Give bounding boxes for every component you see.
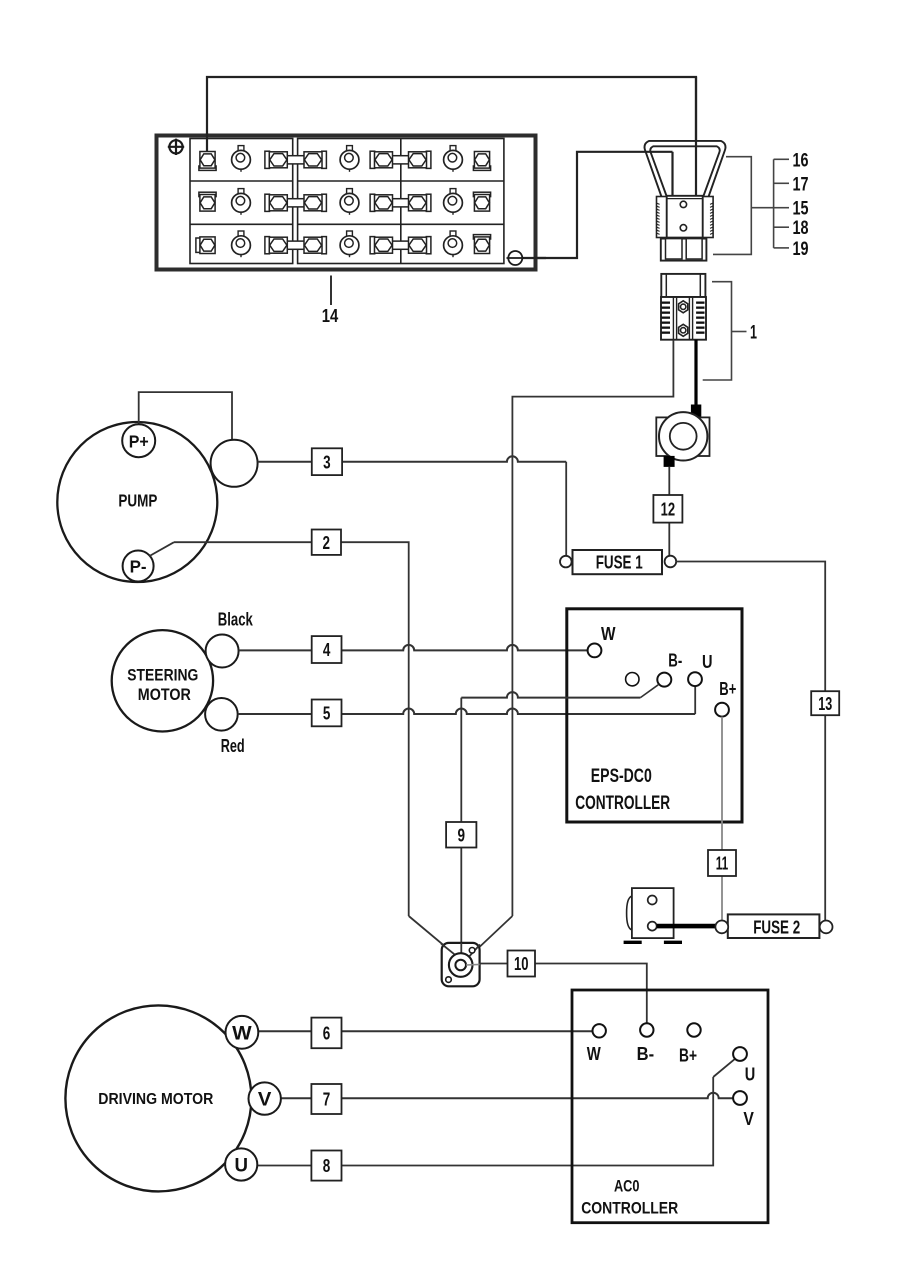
label 1 tick [732,331,747,333]
svg-text:Black: Black [218,610,254,630]
AC0 controller box [572,990,768,1223]
wire contactor to box 12 [668,467,670,556]
wire 2 horizontal and vertical line 1 [174,542,409,916]
pump motor circle [57,422,217,582]
box 4 [312,636,342,663]
contactor body [656,412,709,460]
wire battery negative to plug handle [523,152,673,258]
FUSE 1 body [573,550,663,574]
svg-text:EPS-DC0: EPS-DC0 [591,766,652,787]
label 15 tick [774,207,789,209]
box 3 [312,448,342,475]
svg-text:14: 14 [322,305,339,326]
wire 8 [257,1077,713,1166]
bracket tick to label column [751,207,773,209]
svg-text:FUSE 2: FUSE 2 [753,916,800,937]
svg-text:7: 7 [323,1090,331,1110]
EPS U terminal [688,672,702,686]
svg-text:AC0: AC0 [614,1177,640,1195]
FUSE 2 right terminal circle [820,921,833,934]
battery pack 14 outer case [157,136,536,270]
wire overlay through battery border top [206,133,208,152]
bracket around plug assembly [713,157,751,255]
plug handle tube inner [650,146,720,197]
driving motor W terminal [226,1016,259,1049]
label 19 tick [774,247,789,249]
svg-text:5: 5 [323,704,331,724]
key switch body [627,888,674,938]
connector 1 collar [661,274,705,297]
connector 1 hex bolt upper [679,301,688,313]
box 13 [811,691,839,715]
svg-text:17: 17 [793,174,809,195]
AC0 U terminal [733,1047,747,1061]
AC0 V terminal [733,1091,747,1105]
box 5 [312,700,342,727]
wire ends into flange [441,944,456,956]
svg-text:W: W [587,1044,601,1064]
wire right bus below box 13 to FUSE2 right [824,715,826,921]
wire 7 [281,1093,733,1099]
svg-text:B-: B- [637,1044,655,1064]
svg-text:8: 8 [323,1156,331,1176]
cable connector1 right pin to contactor (thick) [694,340,697,406]
svg-text:FUSE 1: FUSE 1 [596,552,643,573]
battery plus symbol [168,139,184,155]
plug lower contact block [661,239,707,261]
svg-text:2: 2 [323,533,331,553]
svg-text:V: V [743,1109,754,1129]
key switch cable to FUSE 2 (thick) [657,924,716,929]
wire segment over handle left [645,151,673,153]
encoder flange rings [449,953,473,977]
wire battery positive to plug handle [207,77,696,196]
steering motor circle [112,630,213,731]
battery row 3 terminals and links [196,231,491,257]
svg-text:6: 6 [323,1024,331,1044]
svg-text:1: 1 [750,323,757,344]
wire overlay through battery border right [523,257,546,259]
wire 10: encoder to AC0 B- [466,963,480,966]
plug body (item 15) [657,196,714,238]
wire 5 vertical to U terminal [694,686,696,714]
EPS B+ terminal [715,703,729,717]
wire segment over handle right [695,77,697,196]
svg-text:CONTROLLER: CONTROLLER [575,793,670,814]
steering motor Red terminal [205,698,238,731]
svg-text:4: 4 [323,640,331,660]
steering motor Black terminal [206,635,239,668]
label column bracket 16-19 [773,159,775,248]
EPS B- terminal [657,673,671,687]
wire 4 horizontal [239,645,588,651]
FUSE 1 left terminal circle [560,556,572,568]
label 16 tick [774,158,789,160]
wire B+ down to box 11 and FUSE2 [721,717,723,921]
EPS-DC0 controller box [567,609,742,822]
pump P- terminal [123,551,154,582]
svg-text:U: U [234,1156,248,1177]
wire FUSE1 right to right bus vertical [676,562,825,692]
svg-text:MOTOR: MOTOR [138,685,191,704]
connector 1 rib stripes [662,302,705,334]
plug body serrated grip edges [657,203,714,234]
contactor bottom terminal (black) [664,456,675,467]
wire line 1 diagonal into encoder flange left [409,916,457,956]
svg-text:18: 18 [793,218,809,239]
battery row 1 terminals and links [199,146,491,172]
battery row 2 terminals and links [199,189,491,215]
encoder flange screw holes [469,948,475,954]
wire 8 diagonal to AC0 U [713,1059,735,1077]
box 12 [653,495,682,523]
EPS switch diagonal from B- [640,685,658,698]
encoder flange plate [442,943,480,986]
wire vertical diagonal into encoder flange right [468,916,512,958]
wire 3 vertical into FUSE1 left [565,462,567,556]
box 8 [311,1151,341,1181]
connector 1 center channel [673,297,692,340]
wire B- to encoder (line 3) [461,692,640,698]
svg-text:DRIVING MOTOR: DRIVING MOTOR [98,1091,213,1108]
wire 2 diagonal from P- [150,542,175,556]
svg-text:Red: Red [221,736,245,756]
FUSE 2 body [728,914,820,938]
svg-text:V: V [258,1090,272,1111]
svg-text:15: 15 [793,199,809,220]
battery minus symbol [507,251,525,265]
driving motor circle [65,1005,251,1191]
pump P+ terminal [122,424,155,457]
label 17 tick [774,182,789,184]
key switch feet [624,941,682,944]
AC0 W terminal [593,1024,606,1037]
box 7 [311,1084,341,1114]
wire 3 horizontal [258,456,567,462]
plug handle tube outer [645,141,726,197]
EPS W terminal [588,644,602,658]
label 18 tick [774,226,789,228]
battery label 14 tick [330,276,332,306]
svg-text:16: 16 [793,150,809,171]
svg-text:19: 19 [793,239,809,260]
svg-text:12: 12 [661,499,676,519]
svg-text:9: 9 [457,825,465,845]
box 11 [708,850,736,876]
svg-text:W: W [601,624,616,644]
wire 5 horizontal [238,709,696,715]
pump output terminal circle [211,440,258,487]
box 9 [446,822,476,848]
svg-text:P+: P+ [129,431,149,451]
FUSE 2 left terminal circle [715,921,728,934]
svg-text:STEERING: STEERING [127,665,198,684]
svg-text:U: U [702,652,713,672]
svg-text:13: 13 [818,694,832,714]
svg-text:11: 11 [716,854,729,874]
battery cell module boxes [190,139,504,264]
wire 6 [258,1030,592,1032]
svg-text:3: 3 [323,452,331,472]
svg-text:U: U [745,1065,756,1085]
wire connector1 left pin down-left to long vertical [512,340,673,916]
driving motor U terminal [225,1148,257,1180]
box 6 [311,1018,341,1049]
EPS spare terminal [626,673,639,686]
svg-text:W: W [232,1023,252,1044]
svg-text:CONTROLLER: CONTROLLER [581,1199,678,1217]
wire P+ loop to pump output circle [139,392,232,440]
connector 1 body [661,297,706,340]
svg-text:B+: B+ [719,679,736,699]
box 2 [312,530,341,555]
svg-text:PUMP: PUMP [118,491,157,511]
svg-text:B+: B+ [679,1046,697,1066]
driving motor V terminal [249,1082,281,1114]
svg-text:P-: P- [130,557,147,577]
FUSE 1 right terminal circle [665,556,677,568]
bracket for connector 1 [703,282,732,380]
box 10 [508,951,536,977]
AC0 B+ terminal [687,1023,700,1036]
connector 1 hex bolt lower [679,324,688,336]
svg-text:10: 10 [514,954,529,974]
AC0 B- terminal [640,1023,653,1036]
contactor top terminal (black) [691,405,701,418]
svg-text:B-: B- [668,650,682,670]
